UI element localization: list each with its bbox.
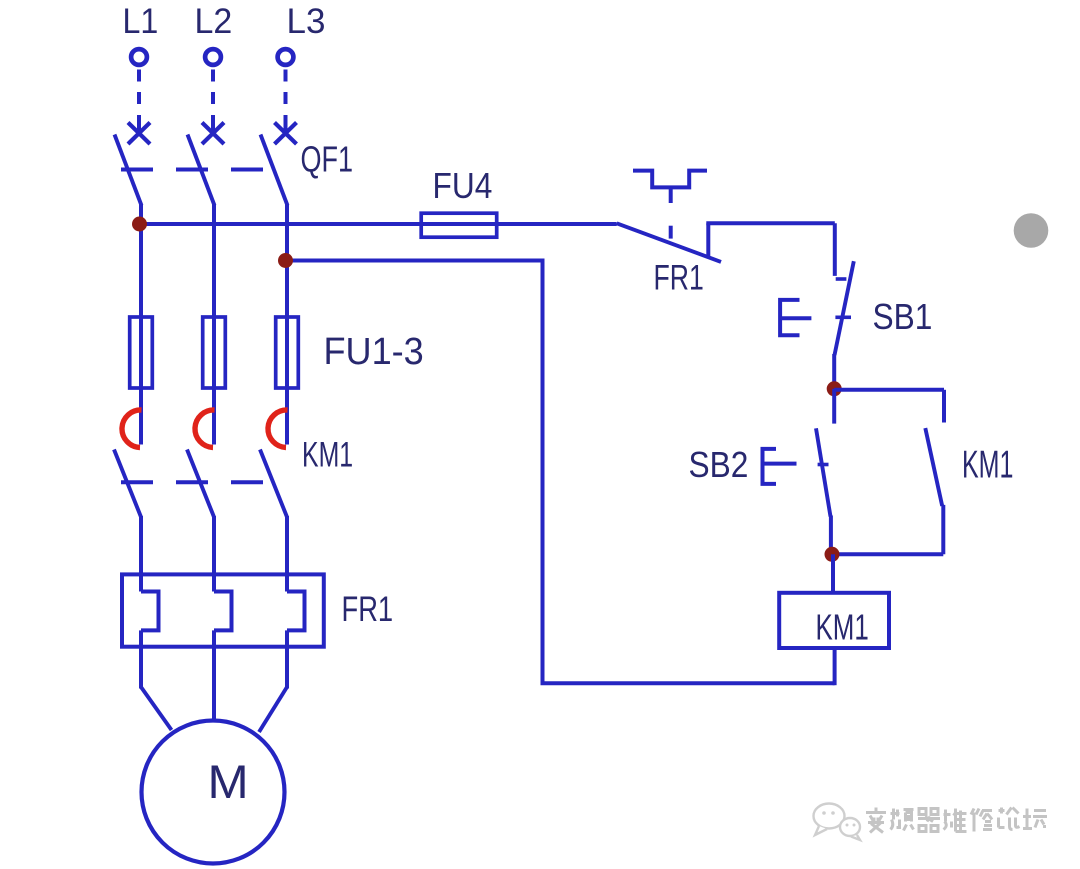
FR1 heater element 2 <box>214 592 232 631</box>
wire phase 1 column <box>139 205 143 445</box>
watermark char 2 <box>891 809 914 831</box>
FR1 NC contact blade <box>617 223 721 262</box>
svg-text:M: M <box>208 756 249 809</box>
contactor KM1 pole 1 blade <box>114 450 141 518</box>
SB1 seat tick <box>836 277 847 281</box>
watermark char 1 <box>866 808 886 833</box>
breaker QF1 pole 2 blade <box>188 135 215 206</box>
contactor KM1 pole 2 blade <box>187 450 214 518</box>
SB1 plunger tick <box>835 315 851 319</box>
dashed lead wire L3 <box>284 70 288 108</box>
wire pole 1 to overload box <box>139 516 143 592</box>
wire motor feed right diagonal <box>259 687 287 732</box>
red arc mark pole 3 <box>268 410 288 448</box>
watermark char 5 <box>971 809 992 832</box>
svg-text:FR1: FR1 <box>654 258 704 298</box>
wire control left rail down <box>541 259 545 684</box>
dashed lead wire L1 <box>137 70 141 108</box>
svg-text:SB1: SB1 <box>873 297 933 337</box>
thermal release symbol of FR1 <box>633 171 707 188</box>
wire motor feed left diagonal <box>141 687 172 730</box>
red arc mark pole 2 <box>195 410 215 448</box>
wire heater 1 exit <box>139 630 143 688</box>
KM1 aux top terminal <box>942 390 946 423</box>
arrow shaft L2 <box>211 115 215 133</box>
FR1 heater element 1 <box>141 592 159 631</box>
terminal circle L1 <box>131 49 147 65</box>
junction node on L1 column <box>132 217 147 232</box>
terminal circle L2 <box>205 49 221 65</box>
SB2 blade <box>816 428 831 516</box>
release dashed link <box>669 226 673 239</box>
SB2 top terminal wire <box>832 389 836 424</box>
SB2 button actuator <box>763 449 777 484</box>
arrow shaft L1 <box>137 115 141 133</box>
watermark char 6 <box>999 808 1020 830</box>
terminal circle L3 <box>278 49 294 65</box>
breaker QF1 pole 3 blade <box>261 135 288 206</box>
wire SB2 to node B <box>829 516 833 555</box>
wire heater 3 exit <box>285 630 289 688</box>
FR1 heater element 3 <box>287 592 305 631</box>
arrow head L3 <box>275 123 297 145</box>
contactor coil KM1 box <box>779 593 889 648</box>
junction node on L3 column <box>278 253 293 268</box>
SB1 top terminal wire <box>833 223 837 276</box>
wire aux branch bottom <box>832 552 943 556</box>
wire node B to coil <box>831 554 835 593</box>
breaker QF1 pole 1 blade <box>115 135 142 206</box>
wire control return tap from L3 <box>286 259 543 263</box>
SB1 actuator link <box>780 316 811 320</box>
watermark logo bubbles <box>814 804 861 841</box>
node B junction dot <box>825 547 840 562</box>
watermark text 变频器维修论坛 <box>866 808 1047 833</box>
watermark char 3 <box>918 809 940 832</box>
fuse FU2 body <box>203 317 226 388</box>
fuse FU1 body <box>130 317 153 388</box>
svg-text:QF1: QF1 <box>301 139 353 180</box>
wire node A to KM1 aux <box>834 388 944 392</box>
svg-text:KM1: KM1 <box>302 435 353 474</box>
wire pole 3 to overload box <box>285 516 289 592</box>
watermark char 4 <box>944 809 967 832</box>
wire heater 2 exit <box>212 630 216 722</box>
wire phase 2 column <box>212 205 216 445</box>
dashed lead wire L2 <box>211 70 215 108</box>
wire phase 3 column <box>285 205 289 445</box>
node A junction dot <box>827 381 842 396</box>
red arc mark pole 1 <box>122 410 142 448</box>
svg-text:KM1: KM1 <box>816 607 869 647</box>
contactor KM1 linkage dashed bar <box>121 480 266 484</box>
svg-text:FU4: FU4 <box>433 166 493 206</box>
KM1 aux blade <box>925 428 942 506</box>
breaker QF1 linkage dashed bar <box>121 168 266 172</box>
overload relay FR1 box <box>122 574 324 646</box>
SB2 actuator link <box>763 462 797 466</box>
fuse FU4 body <box>421 213 497 237</box>
KM1 aux bottom wire <box>941 505 945 554</box>
wire control bus (L1 to FR1 contact) <box>139 222 617 226</box>
SB1 button actuator <box>780 300 799 335</box>
arrow shaft L3 <box>284 115 288 133</box>
arrow head L2 <box>202 123 224 145</box>
fuse FU3 body <box>276 317 299 388</box>
wire control bottom run <box>541 681 835 685</box>
watermark char 7 <box>1023 809 1047 829</box>
motor M circle <box>142 721 285 864</box>
SB2 plunger tick <box>818 463 829 467</box>
svg-text:SB2: SB2 <box>689 445 749 485</box>
svg-text:L3: L3 <box>287 2 326 41</box>
wire SB1 to node A <box>832 354 836 390</box>
wire FR1 contact to SB1 <box>706 221 835 225</box>
svg-text:KM1: KM1 <box>962 443 1013 486</box>
svg-text:L1: L1 <box>123 3 159 42</box>
svg-text:FU1-3: FU1-3 <box>324 329 424 372</box>
FR1 NC fixed terminal <box>706 223 710 257</box>
wire pole 2 to overload box <box>212 516 216 592</box>
svg-text:FR1: FR1 <box>342 589 394 629</box>
contactor KM1 pole 3 blade <box>260 450 287 518</box>
SB1 blade <box>835 261 854 355</box>
release plunger stem <box>669 187 673 203</box>
gray dot decoration <box>1014 213 1049 248</box>
wire KM1 coil bottom lead <box>833 646 837 685</box>
svg-text:L2: L2 <box>195 3 233 42</box>
arrow head L1 <box>128 123 150 145</box>
